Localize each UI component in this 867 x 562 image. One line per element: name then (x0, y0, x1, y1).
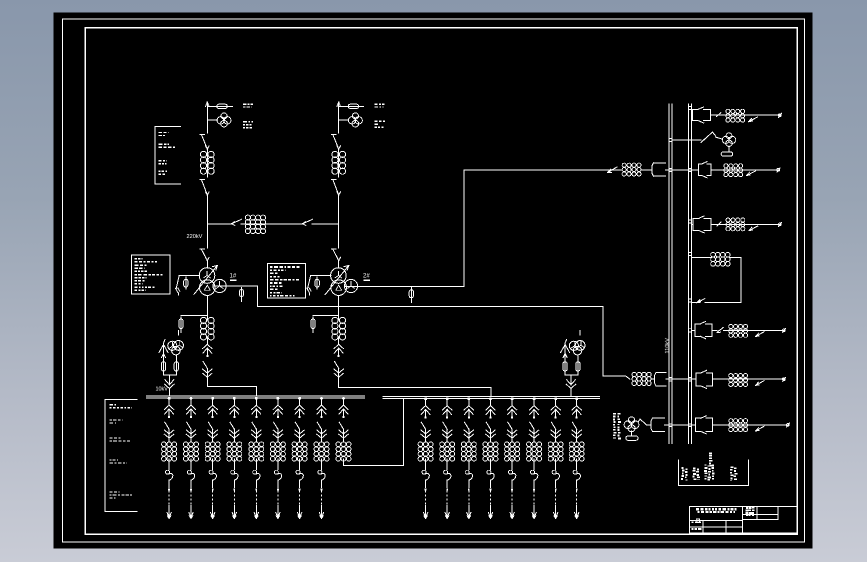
row7 coupling bracket (654, 373, 666, 386)
feeder R5 on 10kV bus II (505, 398, 520, 519)
feeder L3 on 10kV bus I (205, 397, 220, 518)
row8 coupling bracket (651, 418, 665, 432)
svg-text:2#: 2# (363, 274, 370, 280)
bus junction (688, 299, 691, 302)
bus junction (669, 378, 672, 381)
legend bracket box (679, 453, 749, 486)
row5 loop wire (691, 257, 741, 302)
row1 disconnector tick (717, 113, 721, 117)
station PT cluster (624, 417, 640, 440)
wire 220kV tie bus (207, 223, 338, 225)
row8 CT stack (729, 419, 748, 432)
row7 CT stack left (632, 372, 651, 385)
row4 CT stack (726, 218, 745, 231)
row2 disconnector (701, 132, 716, 143)
row3 wire (599, 169, 780, 171)
row6 line end (783, 329, 786, 333)
row6 wire (691, 329, 785, 331)
neutral grounding branch with arrester (176, 276, 200, 295)
svg-text:110kV: 110kV (665, 338, 671, 354)
feeder L1 on 10kV bus I (162, 397, 177, 518)
surge arrester F bay 2 (339, 104, 364, 108)
row1 CT stack (726, 109, 745, 122)
bus junction (669, 423, 672, 426)
wire T2 tertiary lead (346, 170, 600, 303)
title block lines (689, 506, 778, 533)
row3 CT stack right (724, 164, 743, 177)
label 10kV bus I (156, 387, 169, 393)
transformer T1 (1# main) (194, 224, 226, 296)
feeder R4 on 10kV bus II (483, 398, 498, 519)
feeder L9 bus-tie (336, 397, 351, 465)
row6 CT stack (729, 324, 748, 337)
wire bus tie section I-II (344, 398, 404, 465)
row7 line end (783, 377, 786, 381)
title block outer (689, 506, 797, 533)
label 1# (230, 274, 237, 281)
svg-text:220kV: 220kV (187, 234, 203, 240)
row8 disconnector (756, 426, 765, 431)
tie disconnector left (232, 219, 242, 225)
station PT label text (613, 413, 621, 439)
feeder L5 on 10kV bus I (249, 397, 264, 518)
row4 disconnector tick (717, 222, 721, 226)
disconnector QS lower bay 1 (200, 180, 209, 195)
label 110kV vertical (665, 338, 671, 354)
row7 drawout breaker (696, 370, 713, 388)
row3 drawout breaker (698, 162, 711, 178)
row7 CT stack right (729, 374, 748, 387)
feeder L7 on 10kV bus I (292, 397, 307, 518)
row3 disconnector2 (747, 171, 756, 176)
bus 110kV pair B (688, 104, 691, 444)
voltage transformer TV bay 1 (207, 113, 231, 127)
bus 10kV section II (383, 396, 599, 398)
voltage transformer TV bay 2 (339, 113, 363, 127)
text box transformer T2 data (268, 264, 306, 298)
row6 disconnector (756, 332, 765, 337)
row1 line end (778, 113, 781, 117)
feeder R3 on 10kV bus II (461, 398, 476, 519)
row8 wire (640, 419, 789, 425)
feeder R8 on 10kV bus II (569, 398, 584, 519)
title block small texts (692, 507, 755, 530)
bus junction (688, 168, 691, 171)
row5 disconnector (697, 299, 705, 303)
disconnector QS lower bay 2 (331, 180, 340, 195)
feeder L6 on 10kV bus I (270, 397, 285, 518)
feeder R2 on 10kV bus II (440, 398, 455, 519)
row1 drawout breaker (692, 107, 710, 123)
row3 coupling bracket (652, 163, 666, 176)
wire 220kV bay 1 main line (206, 102, 210, 224)
tie current transformer stack (245, 215, 265, 234)
label text block bay2 top (375, 104, 385, 128)
surge arrester F bay 1 (207, 104, 232, 108)
row3 CT stack left (622, 163, 641, 176)
row4 line end (778, 223, 781, 227)
bus junction (688, 329, 691, 332)
row6 drawout breaker (695, 321, 712, 338)
bus junction (688, 423, 691, 426)
wire transformer T1 LV chain (179, 295, 256, 396)
row2 PT cluster (716, 133, 736, 147)
outer border frame (63, 19, 805, 542)
row7 wire (621, 376, 785, 379)
feeder L8 on 10kV bus I (314, 397, 329, 518)
svg-text:10kV: 10kV (156, 387, 169, 393)
bus junction (688, 252, 691, 255)
bus junction (688, 378, 691, 381)
bus 110kV pair A (669, 104, 672, 444)
row4 wire (691, 223, 781, 225)
row4 disconnector (749, 226, 758, 231)
tie disconnector right (303, 219, 313, 225)
text box transformer T1 data (131, 255, 169, 294)
inner border frame (85, 28, 797, 535)
row7 disconnector (756, 381, 765, 386)
station transformer 2 (above bus II) (561, 331, 585, 396)
neutral grounding branch with arrester (307, 276, 331, 295)
feeder L2 on 10kV bus I (184, 397, 199, 518)
wire 220kV bay 2 main line (337, 102, 341, 224)
feeder R7 on 10kV bus II (548, 398, 563, 519)
feeder R1 on 10kV bus II (418, 398, 433, 519)
title block drawing name (696, 508, 737, 513)
disconnector QS upper bay 2 (331, 135, 340, 149)
text block 220kV line spec bracket (155, 127, 180, 184)
row1 disconnector (749, 117, 758, 122)
transformer T2 (2# main) (325, 224, 357, 296)
svg-text:1#: 1# (230, 274, 237, 280)
feeder L4 on 10kV bus I (227, 397, 242, 518)
row8 drawout breaker (696, 416, 713, 434)
label 2# (363, 274, 370, 281)
feeder R6 on 10kV bus II (527, 398, 542, 519)
bus junction (688, 106, 691, 109)
110kV PT row wire (672, 139, 701, 141)
bus junction (669, 138, 672, 141)
row2 arrester capsule (721, 146, 732, 156)
110kV feeder row1 wire (691, 114, 781, 116)
current transformer TA upper bay 2 (332, 151, 346, 174)
wire transformer T2 LV chain (311, 295, 491, 396)
current transformer TA upper bay 1 (200, 151, 214, 174)
row4 drawout breaker (693, 216, 711, 233)
bus 10kV section I (147, 396, 365, 398)
row6 disconnector arrow (717, 327, 724, 332)
wire T1 tertiary lead (214, 286, 621, 376)
row3 disconnector arrow (608, 167, 618, 173)
bus junction (688, 220, 691, 223)
bus junction (669, 168, 672, 171)
row5 CT stack (711, 252, 730, 266)
label text block bay1 top (243, 104, 253, 129)
text block notes bracket (bottom left) (105, 399, 137, 511)
row3 line end (777, 168, 780, 172)
disconnector QS upper bay 1 (200, 135, 209, 149)
row8 line end (786, 423, 789, 427)
label 220kV (187, 234, 203, 240)
station transformer 1 (above bus I) (159, 331, 183, 396)
